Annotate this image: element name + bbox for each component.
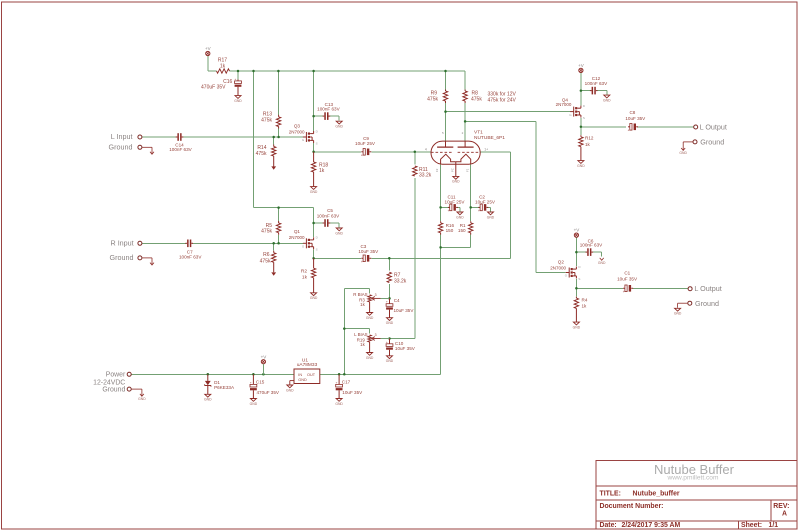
capacitor C10 [386,339,416,364]
capacitor C4 [386,298,415,325]
wire tube right grid to C3 net [480,152,510,258]
svg-text:150: 150 [458,228,466,233]
wire R11 grid leak [390,152,415,339]
wire R channel supply feed [254,208,314,237]
resistor R14 [256,145,276,170]
svg-text:GND: GND [603,98,611,102]
svg-text:Date:: Date: [600,522,617,529]
svg-text:F1: F1 [465,168,469,172]
resistor R1 [458,221,473,234]
svg-text:S: S [316,248,318,252]
svg-text:www.pmillett.com: www.pmillett.com [667,475,719,482]
svg-text:A: A [782,511,787,518]
svg-text:33.2k: 33.2k [419,173,432,179]
svg-text:TITLE:: TITLE: [600,490,621,497]
svg-text:GND: GND [366,356,374,360]
svg-text:Q1: Q1 [294,229,301,234]
svg-text:+: + [386,340,388,344]
svg-text:C4: C4 [394,298,400,303]
svg-text:L Output: L Output [700,122,727,131]
regulator U1 uA78M33 [286,357,320,392]
svg-text:2N7000: 2N7000 [289,235,305,240]
wire power input net [131,373,294,375]
svg-text:S: S [316,141,318,145]
svg-text:100nF 63V: 100nF 63V [179,254,202,259]
wire C11 branch [441,207,460,211]
resistor R8 [463,90,482,104]
svg-text:R4: R4 [582,297,588,302]
TITLE row [600,490,680,497]
capacitor C8 [625,110,646,132]
wire L BIAS feed [344,329,369,334]
wire Q3 drain branch C13 [314,116,340,121]
+V symbol Q2 [574,228,580,238]
resistor R7 [387,272,407,285]
wire +V rail top [208,56,465,208]
svg-text:10uF 35V: 10uF 35V [625,116,646,121]
svg-text:3: 3 [375,293,377,297]
svg-text:GND: GND [335,402,343,406]
svg-text:10uF 35V: 10uF 35V [395,346,416,351]
date row [600,522,779,529]
svg-text:L Output: L Output [694,284,721,293]
svg-text:GND: GND [335,125,343,129]
svg-text:uA78M33: uA78M33 [297,362,318,368]
svg-text:GND: GND [204,398,212,402]
svg-text:10uF 35V: 10uF 35V [342,390,363,395]
svg-text:10uF 35V: 10uF 35V [617,277,638,282]
svg-text:Power: Power [106,371,126,378]
svg-text:1k: 1k [360,342,365,347]
svg-text:1k: 1k [319,168,325,174]
svg-text:GND: GND [573,325,581,329]
wire R5 top lead [278,208,280,221]
pin R Input [111,239,142,248]
diode D1 P6KE33A [204,374,235,401]
svg-text:R6: R6 [263,252,270,258]
potentiometer R19 L BIAS [354,332,389,360]
wire Q4 drain [581,73,591,106]
resistor R4 [573,297,588,330]
wire filament return to 3V3 rail [441,235,471,375]
svg-text:+V: +V [261,354,267,359]
svg-text:R BIAS: R BIAS [353,292,367,297]
title text Nutube Buffer [654,462,735,477]
svg-text:GND: GND [138,397,146,401]
svg-text:Ground: Ground [110,253,134,262]
svg-text:S: S [583,116,585,120]
capacitor C7 [179,240,202,260]
resistor R16 [438,221,454,234]
wire C6 branch [592,252,601,257]
resistor R6 [260,251,276,276]
svg-text:150: 150 [446,228,454,233]
svg-text:3: 3 [375,333,377,337]
svg-text:Ground: Ground [109,143,133,152]
svg-text:475k: 475k [260,259,271,265]
capacitor C3 [358,244,379,264]
svg-text:10uF 25V: 10uF 25V [445,199,466,204]
svg-text:GND: GND [674,312,682,316]
capacitor C12 [585,76,611,102]
resistor R17 [217,58,230,73]
svg-text:REV:: REV: [773,503,789,510]
svg-text:33.2k: 33.2k [394,279,407,285]
potentiometer R3 R BIAS [353,292,389,320]
svg-text:475k for 24V: 475k for 24V [488,97,517,103]
svg-text:+V: +V [205,46,211,51]
svg-text:+: + [448,209,450,213]
svg-text:100nF 63V: 100nF 63V [317,107,340,112]
svg-text:+: + [628,128,630,132]
svg-text:GND: GND [366,316,374,320]
document number row [600,503,790,518]
capacitor C14 [169,133,192,152]
resistor R9 [427,90,448,104]
transistor Q1 [289,229,319,252]
svg-text:1/1: 1/1 [769,522,779,529]
svg-text:GND: GND [386,359,394,363]
wire Q1 source net to C3 and tube grid [314,249,511,258]
svg-text:GND: GND [679,151,687,155]
svg-text:4: 4 [425,147,427,151]
svg-text:GND: GND [310,296,318,300]
svg-text:10uF 25V: 10uF 25V [355,141,376,146]
wire L input net [142,136,303,138]
svg-text:2N7000: 2N7000 [550,265,566,270]
svg-text:GND: GND [487,215,495,219]
svg-text:C17: C17 [342,379,351,384]
wire Q2 supply [576,237,586,266]
svg-text:475k: 475k [256,151,267,157]
wire R gate bias [274,235,279,251]
svg-text:+: + [235,77,237,81]
svg-text:1k: 1k [582,304,588,309]
svg-text:OUT: OUT [307,373,316,377]
svg-text:2N7000: 2N7000 [289,129,305,134]
svg-text:10uF 35V: 10uF 35V [394,308,415,313]
wire C12 branch [597,91,607,95]
svg-text:470uF 35V: 470uF 35V [201,84,226,90]
capacitor C13 [317,102,343,129]
svg-text:GND: GND [577,164,585,168]
resistor R12 [577,135,594,168]
svg-text:Q2: Q2 [558,259,565,264]
pin power Ground [102,386,146,401]
capacitor C5 [317,208,344,235]
svg-text:+: + [336,380,338,384]
wire bias supply vertical [343,289,345,375]
svg-text:1k: 1k [302,274,308,280]
svg-text:+: + [361,260,363,264]
svg-text:100nF 63V: 100nF 63V [580,243,603,248]
svg-text:100nF 63V: 100nF 63V [317,213,340,218]
svg-text:R12: R12 [585,135,594,140]
capacitor C1 [617,270,638,294]
svg-text:1+: 1+ [484,147,488,151]
svg-text:Document Number:: Document Number: [600,503,664,510]
svg-text:+: + [478,209,480,213]
title url www.pmillett.com [667,475,719,482]
resistor R2 [301,258,318,300]
svg-text:2N7000: 2N7000 [556,102,572,107]
wire R anode to Q2 gate [465,103,566,273]
svg-text:+: + [250,380,252,384]
svg-text:IN: IN [298,373,302,377]
capacitor C2 [475,194,496,219]
svg-text:2/24/2017 9:35 AM: 2/24/2017 9:35 AM [622,522,681,529]
wire Q1 drain branch C5 [314,223,340,227]
svg-text:L Input: L Input [111,132,133,141]
capacitor C6 [580,238,606,265]
+V symbol top left [205,46,211,56]
wire tube filament left to C11 R16 [440,165,442,222]
transistor Q2 [550,259,581,281]
pin L Input [111,132,142,141]
+V symbol Q4 [578,63,584,73]
svg-text:S: S [578,277,580,281]
svg-text:GND: GND [386,321,394,325]
wire 3V3 output rail [320,373,441,375]
transistor Q3 [289,124,319,146]
resistor R18 [310,152,329,194]
svg-text:Nutube_buffer: Nutube_buffer [633,490,680,497]
wire C2 branch [471,207,491,211]
svg-text:FC: FC [450,168,454,172]
transistor Q4 [556,97,586,120]
svg-text:475k: 475k [471,96,482,102]
title block outline [596,461,797,530]
ground tube filament center tap [452,176,460,183]
svg-text:L BIAS: L BIAS [354,332,368,337]
svg-text:GND: GND [234,99,242,103]
capacitor C16 [201,77,242,103]
svg-text:GND: GND [452,180,460,184]
vacuum tube VT1 NUTUBE_6P1 [425,129,505,176]
svg-text:+V: +V [574,228,580,233]
svg-text:475k: 475k [261,228,272,234]
svg-text:NUTUBE_6P1: NUTUBE_6P1 [474,135,505,141]
capacitor C15 [250,374,280,406]
svg-text:VT1: VT1 [474,129,483,135]
svg-text:R2: R2 [301,268,307,274]
svg-text:475k: 475k [261,117,272,123]
svg-text:C1: C1 [624,270,630,275]
capacitor C17 [335,374,363,406]
svg-text:100nF 63V: 100nF 63V [169,147,192,152]
svg-text:R Input: R Input [111,239,134,248]
pin L input Ground [109,143,154,155]
pin output Ground bottom [674,299,719,316]
svg-text:Ground: Ground [700,137,724,146]
svg-text:1k: 1k [585,142,591,147]
pin output Ground top [679,137,724,155]
wire R input net [142,242,303,244]
svg-text:Ground: Ground [695,299,719,308]
resistor R11 [413,166,432,179]
wire Q4 source net to C8 and output [581,118,694,135]
svg-text:C8: C8 [629,110,635,115]
svg-text:Sheet:: Sheet: [741,522,762,529]
capacitor C9 [355,136,376,158]
svg-text:475k: 475k [427,96,438,102]
svg-text:10uF 35V: 10uF 35V [358,249,379,254]
svg-text:Q3: Q3 [294,124,301,129]
svg-text:10uF 25V: 10uF 25V [475,199,496,204]
svg-text:GND: GND [250,402,258,406]
svg-text:C15: C15 [256,380,265,385]
svg-text:470uF 35V: 470uF 35V [257,390,280,395]
svg-text:100nF 63V: 100nF 63V [585,81,608,86]
pin R input Ground [110,253,154,265]
svg-text:1k: 1k [360,302,365,307]
svg-text:F2: F2 [435,168,439,172]
wire Q2 source net to C1 and output [576,279,687,297]
svg-text:P6KE33A: P6KE33A [214,385,235,390]
svg-text:C5: C5 [327,208,333,213]
pin Power [93,371,131,386]
svg-text:GND: GND [286,388,294,392]
wire tube filament right to C2 R1 [470,165,472,222]
resistor R13 [261,112,281,129]
wire R BIAS feed [344,289,369,294]
svg-text:GND: GND [298,378,307,382]
wire L gate bias [274,129,279,145]
svg-text:+V: +V [578,63,584,68]
wire Q3 source net to C9 and tube grid [314,143,431,152]
+V symbol power section [261,354,267,374]
wire R7 grid leak [388,258,390,298]
pin L Output bottom [688,284,722,293]
svg-text:1k: 1k [220,64,226,70]
pin L Output top [694,122,727,131]
resistor R5 [261,221,281,235]
svg-text:+: + [386,300,388,304]
svg-text:GND: GND [598,261,606,265]
svg-text:Ground: Ground [102,386,125,393]
svg-text:GND: GND [335,231,343,235]
svg-text:+: + [361,153,363,157]
wire L anode to Q4 gate [446,103,571,141]
svg-text:GND: GND [456,215,464,219]
svg-text:GND: GND [310,190,318,194]
svg-text:+: + [623,290,625,294]
capacitor C11 [445,194,466,219]
note anode load value [488,92,517,104]
